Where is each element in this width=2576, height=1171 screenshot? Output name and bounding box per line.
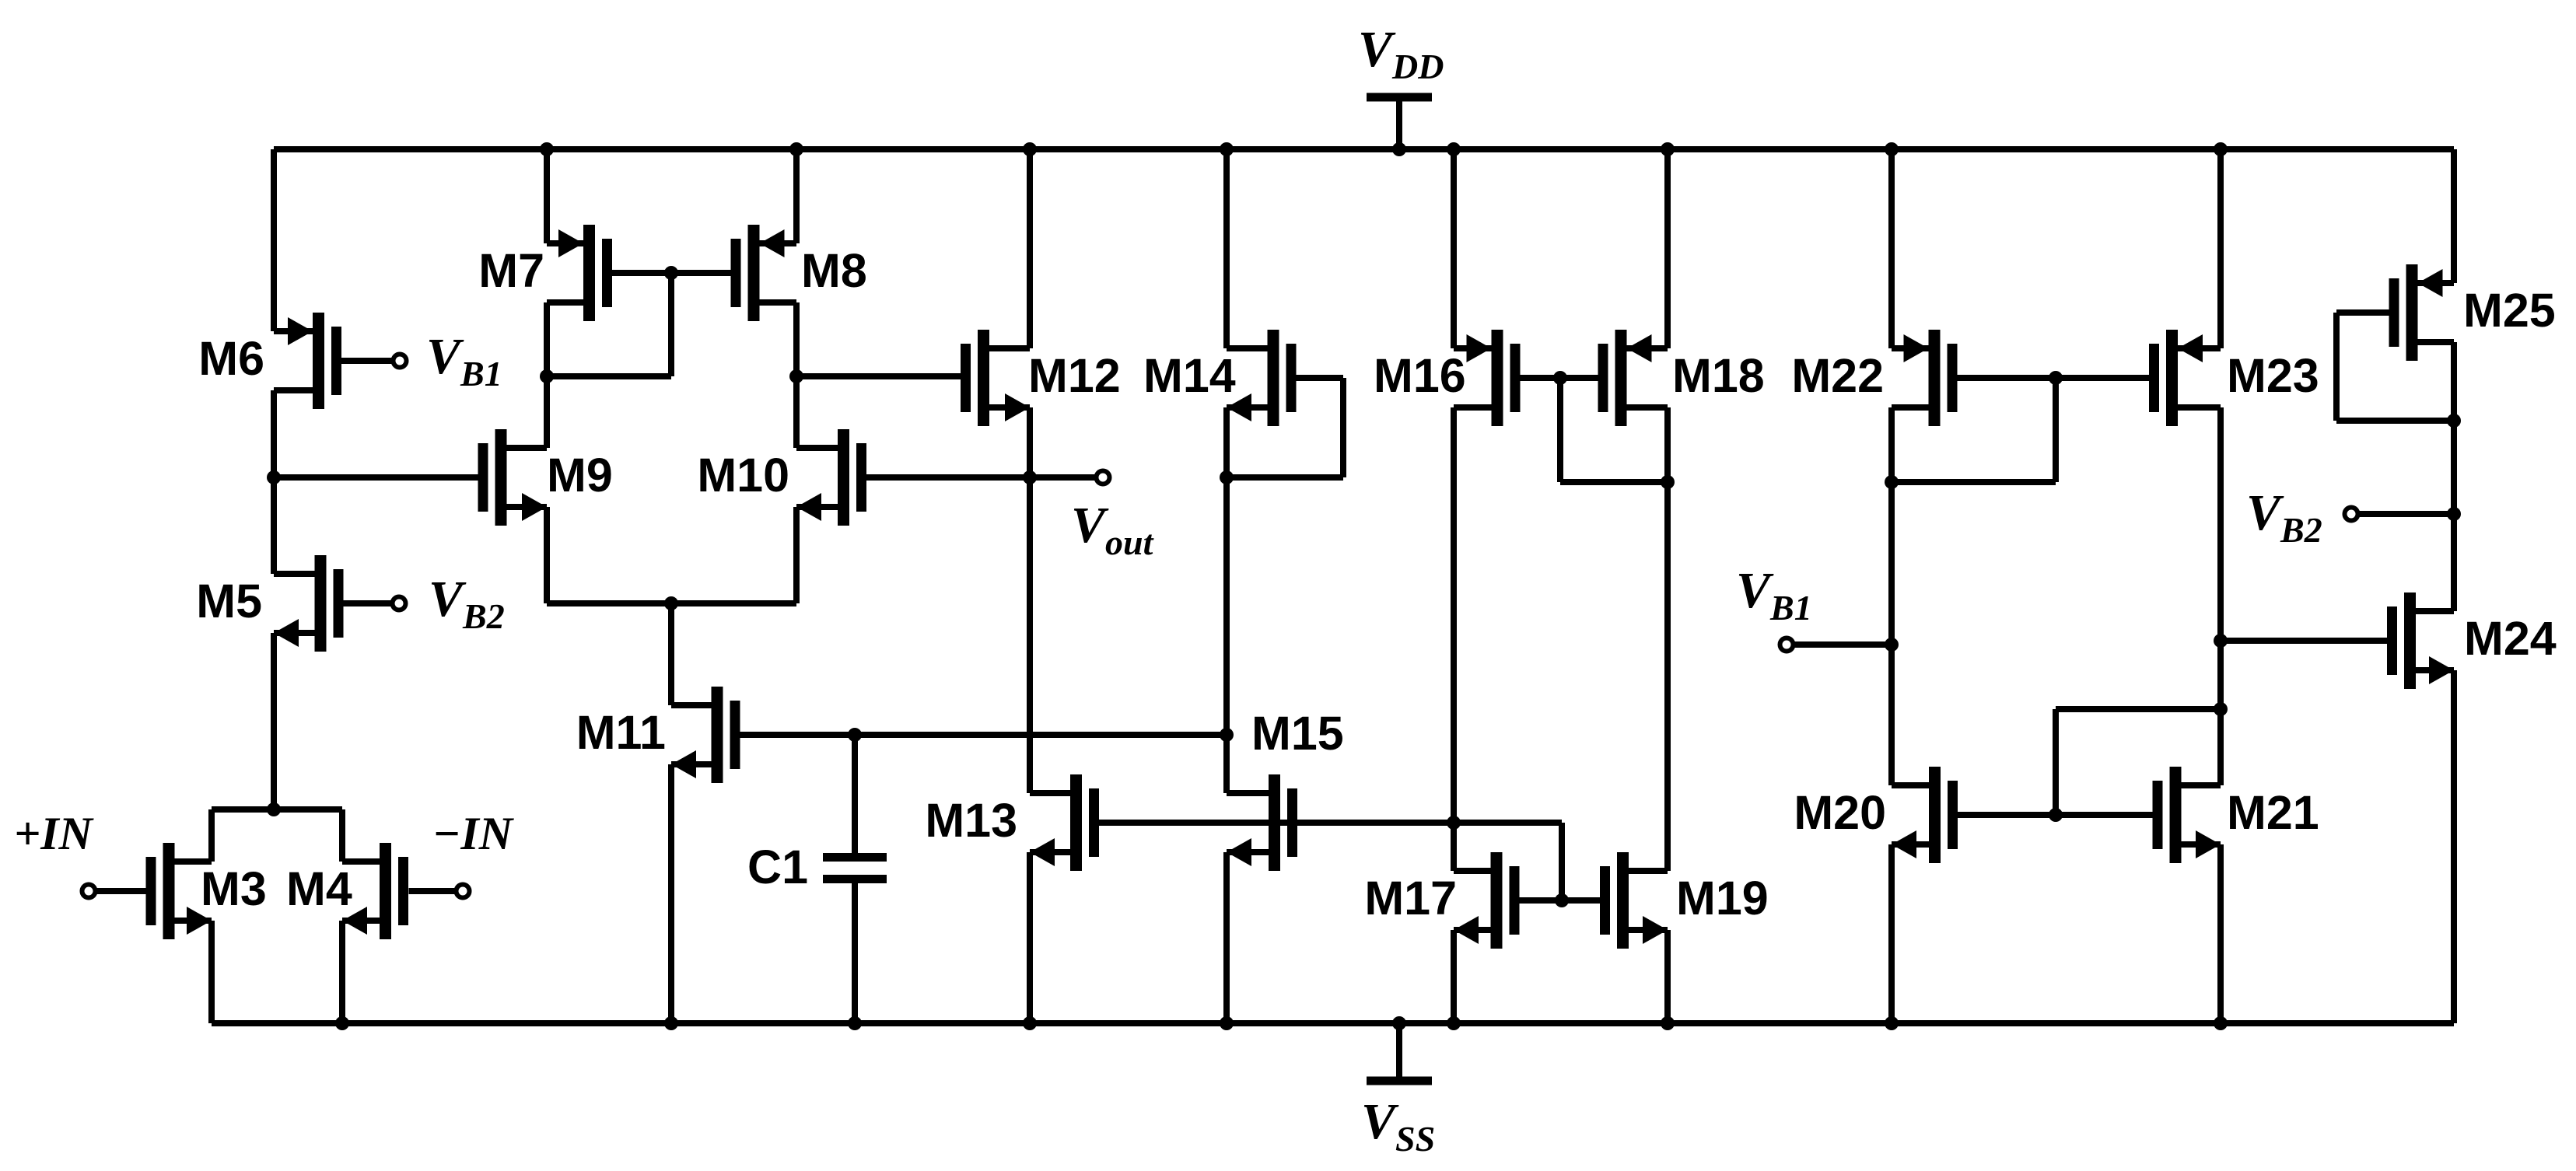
wire M23 drain to M21 source: [2214, 407, 2228, 785]
power symbol VSS: [1361, 1016, 1435, 1159]
wire M11 drain to VSS rail: [664, 764, 678, 1030]
label M25: [2463, 284, 2556, 337]
label M17: [1364, 872, 1457, 925]
wire M22 drain to M20 source: [1885, 407, 1899, 785]
svg-text:M22: M22: [1791, 349, 1884, 402]
label M23: [2227, 349, 2319, 402]
transistor M21: [2153, 767, 2221, 863]
svg-text:C1: C1: [747, 841, 808, 893]
label M4: [286, 862, 352, 915]
wire M7 gate-drain tie: [540, 273, 671, 383]
wire VDD to M8 source: [789, 142, 803, 243]
transistor M7: [547, 225, 612, 321]
wire M6 gate stub: [341, 358, 393, 364]
wire C1 top connection: [852, 735, 858, 853]
svg-text:M23: M23: [2227, 349, 2319, 402]
wire M13-M15 gate line: [1099, 816, 1562, 830]
wire M19 drain to VSS rail: [1661, 930, 1675, 1030]
wire VDD to M25 source: [2451, 149, 2457, 283]
label M12: [1028, 349, 1121, 402]
label M5: [196, 575, 262, 627]
terminal Vout: [1071, 471, 1154, 563]
label M22: [1791, 349, 1884, 402]
svg-text:M17: M17: [1364, 872, 1457, 925]
wire M16-M18 gate line: [1521, 371, 1598, 385]
wire M20-M21 gate line: [1958, 808, 2153, 822]
wire VDD to M23 source: [2214, 142, 2228, 348]
wire link to M11 source: [668, 603, 674, 705]
terminal -IN: [432, 808, 515, 898]
transistor M14: [1227, 330, 1297, 426]
svg-text:M16: M16: [1374, 349, 1466, 402]
wire M25 gate-drain tie: [2336, 313, 2454, 421]
svg-text:+IN: +IN: [14, 808, 95, 859]
transistor M19: [1600, 852, 1668, 949]
terminal VB1 left: [394, 328, 502, 393]
terminal VB1 right: [1736, 562, 1812, 652]
wire VDD to M7 source: [540, 142, 554, 243]
wire VDD to M18 source: [1661, 142, 1675, 348]
wire M3 source up: [208, 809, 215, 862]
wire M5 drain to tail node: [271, 633, 277, 809]
label M14: [1143, 349, 1236, 402]
svg-text:M9: M9: [547, 449, 613, 502]
wire M8 drain to M10 source: [789, 302, 803, 448]
label M15: [1251, 707, 1344, 760]
label M9: [547, 449, 613, 502]
label M18: [1672, 349, 1765, 402]
wire M4 source up: [339, 809, 345, 862]
power symbol VDD: [1358, 21, 1444, 156]
wire M14 gate-drain tie: [1227, 378, 1343, 477]
wire VDD to M12 source: [1023, 142, 1037, 348]
transistor M9: [478, 429, 548, 526]
wire M7 drain to M9 source: [544, 302, 550, 448]
wire M9 drain down: [544, 507, 550, 603]
wire M13 drain to VSS rail: [1023, 852, 1037, 1030]
terminal VB2 left: [393, 571, 505, 636]
wire VB2 stub: [2358, 511, 2454, 517]
svg-text:M12: M12: [1028, 349, 1121, 402]
transistor M18: [1598, 330, 1668, 426]
svg-text:−IN: −IN: [432, 808, 515, 859]
svg-text:M3: M3: [201, 862, 267, 915]
transistor M8: [731, 225, 797, 321]
label M3: [201, 862, 267, 915]
transistor M16: [1454, 330, 1521, 426]
capacitor C1: [823, 858, 887, 879]
node M6 drain junction: [267, 470, 281, 484]
transistor M6: [274, 313, 341, 409]
wire M18 drain to M19 source: [1661, 407, 1675, 871]
wire M22-M23 gate line: [1958, 371, 2150, 385]
wire M3 drain down: [208, 921, 215, 1023]
label M7: [478, 244, 544, 297]
wire M6 drain to M5 source: [271, 390, 277, 574]
svg-text:M19: M19: [1676, 872, 1769, 925]
wire M11 gate comp line: [740, 728, 1227, 742]
wire M9-M10 drain link: [547, 596, 796, 610]
wire diff pair tail: [212, 802, 342, 816]
transistor M10: [796, 429, 866, 526]
wire M16 gate tie down: [1560, 378, 1668, 482]
label C1: [747, 841, 808, 893]
transistor M12: [961, 330, 1030, 426]
terminal VB2 right: [2246, 484, 2358, 550]
wire M12 drain to M13 source: [1027, 407, 1033, 793]
wire M22 gate-drain tie: [1892, 378, 2056, 482]
wire M17 drain to VSS rail: [1447, 930, 1461, 1030]
node Vout junction: [1023, 470, 1037, 484]
transistor M23: [2149, 330, 2221, 426]
transistor M20: [1892, 767, 1958, 863]
wire M25 drain to M24 source: [2447, 342, 2461, 611]
transistor M4: [342, 843, 408, 939]
wire VDD to M14 source: [1220, 142, 1234, 348]
wire gate line drop: [1559, 823, 1565, 900]
label M24: [2464, 612, 2557, 665]
wire M17-M19 gate line: [1520, 893, 1601, 907]
wire M3 gate stub: [95, 888, 146, 894]
wire VDD to M22 source: [1885, 142, 1899, 348]
svg-text:M15: M15: [1251, 707, 1344, 760]
wire M4 gate stub: [409, 888, 457, 894]
wire C1 bottom to VSS rail: [848, 883, 862, 1030]
label M21: [2227, 786, 2319, 839]
wire VDD to M16 source: [1447, 142, 1461, 348]
svg-text:M14: M14: [1143, 349, 1236, 402]
wire M16 drain to M17 source: [1451, 407, 1457, 871]
wire VDD rail: [274, 146, 2454, 152]
svg-text:M7: M7: [478, 244, 544, 297]
label M20: [1794, 786, 1886, 839]
svg-text:M21: M21: [2227, 786, 2319, 839]
wire M20 drain to VSS rail: [1885, 844, 1899, 1030]
wire M14 drain to M15 source: [1220, 407, 1234, 793]
transistor M22: [1892, 330, 1958, 426]
wire M6 source to VDD rail: [271, 149, 277, 331]
svg-text:M5: M5: [196, 575, 262, 627]
terminal +IN: [14, 808, 96, 898]
wire M7-M8 gate line: [612, 266, 731, 280]
wire M24 drain to VSS rail: [2451, 670, 2457, 1023]
svg-text:M25: M25: [2463, 284, 2556, 337]
label M8: [801, 244, 867, 297]
wire VB1 to M20 source node: [1794, 641, 1892, 648]
transistor M24: [2387, 592, 2454, 689]
label M10: [697, 449, 789, 502]
label M6: [198, 332, 264, 385]
svg-text:M20: M20: [1794, 786, 1886, 839]
wire M10 drain down: [793, 507, 800, 603]
svg-text:M18: M18: [1672, 349, 1765, 402]
wire M12 gate line: [796, 373, 961, 379]
wire M24 gate line: [2221, 638, 2387, 644]
wire M20 gate tie up: [2056, 709, 2221, 815]
wire VSS rail: [212, 1020, 2454, 1026]
svg-text:M24: M24: [2464, 612, 2557, 665]
wire M10 gate to Vout: [866, 474, 1097, 481]
wire M4 drain down: [335, 921, 349, 1030]
label M13: [925, 794, 1017, 847]
wire M5 gate stub: [344, 600, 393, 606]
wire M9 gate line: [274, 474, 478, 481]
wire M21 drain to VSS rail: [2214, 844, 2228, 1030]
transistor M13: [1030, 774, 1099, 871]
transistor M11: [671, 687, 740, 783]
label M11: [576, 706, 666, 759]
transistor M25: [2389, 264, 2455, 361]
wire M15 drain to VSS rail: [1220, 852, 1234, 1030]
svg-text:M8: M8: [801, 244, 867, 297]
transistor M5: [274, 555, 344, 652]
svg-text:M10: M10: [697, 449, 789, 502]
transistor M15: [1227, 774, 1297, 871]
svg-text:M4: M4: [286, 862, 352, 915]
svg-text:M6: M6: [198, 332, 264, 385]
svg-text:M13: M13: [925, 794, 1017, 847]
transistor M17: [1454, 852, 1520, 949]
label M19: [1676, 872, 1769, 925]
transistor M3: [146, 843, 212, 939]
svg-text:M11: M11: [576, 706, 666, 759]
label M16: [1374, 349, 1466, 402]
